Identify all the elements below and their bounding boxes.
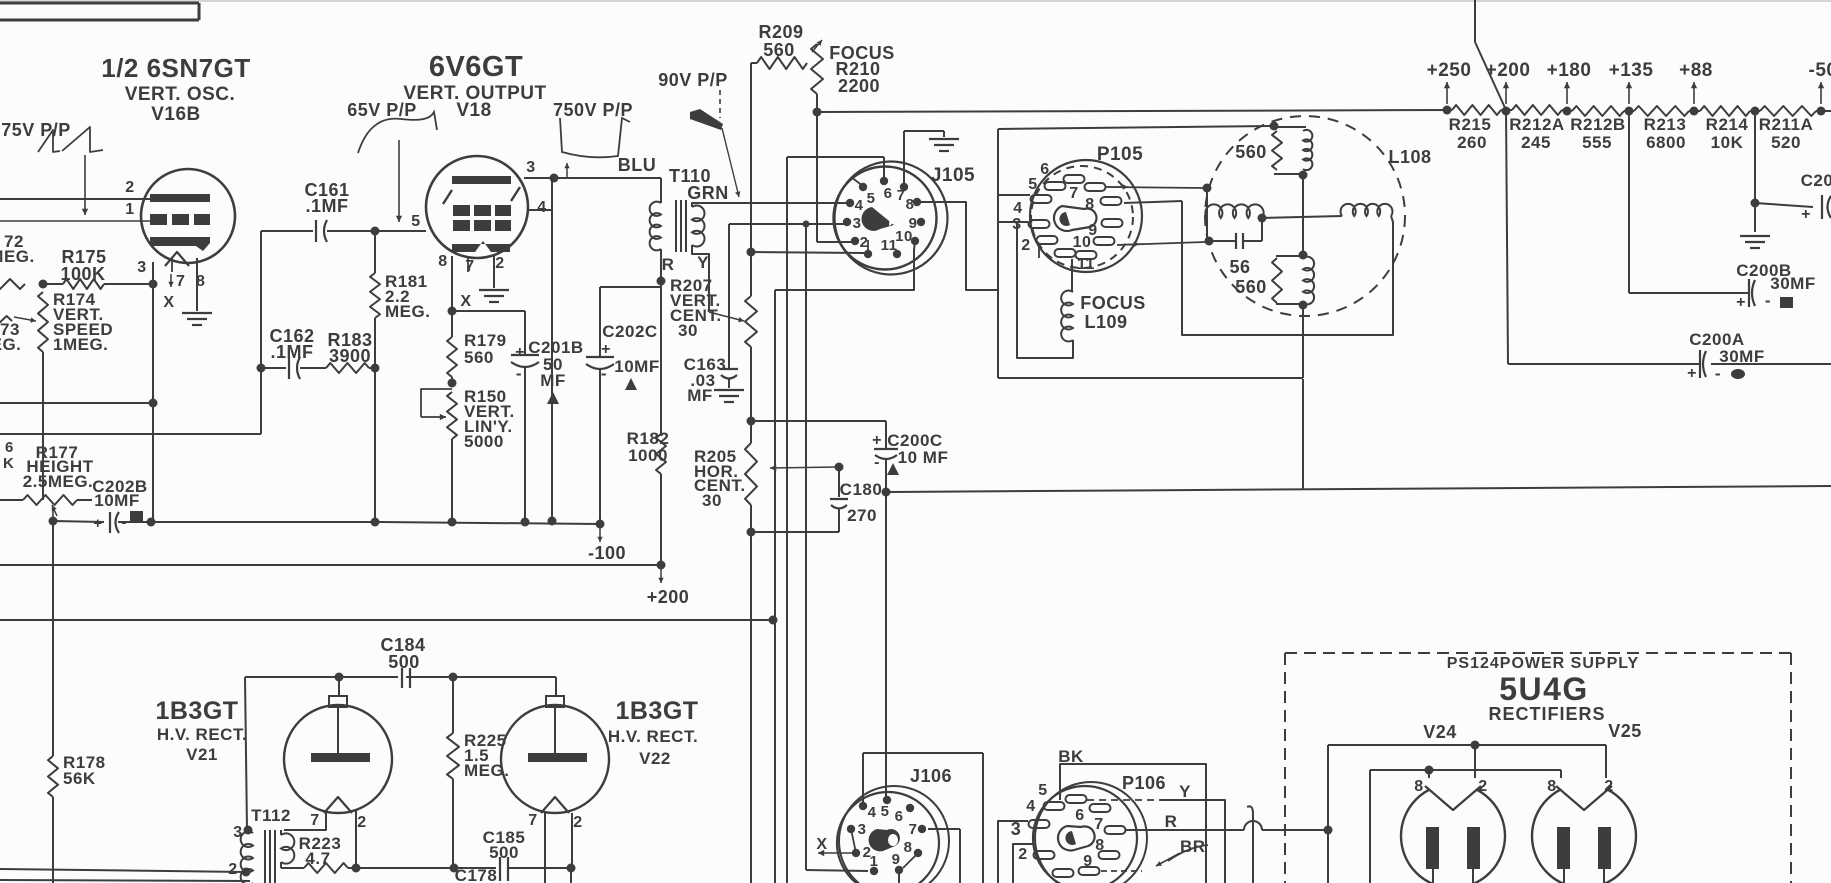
svg-text:6: 6 <box>1040 161 1049 178</box>
svg-text:-100: -100 <box>588 543 626 563</box>
svg-text:270: 270 <box>847 506 877 525</box>
svg-text:MF: MF <box>687 386 713 405</box>
svg-text:-50: -50 <box>1809 60 1831 81</box>
svg-text:7: 7 <box>1094 816 1103 833</box>
svg-text:555: 555 <box>1582 133 1612 152</box>
svg-text:2: 2 <box>860 234 869 251</box>
svg-text:MEG.: MEG. <box>385 302 430 321</box>
svg-text:8: 8 <box>1414 778 1423 795</box>
svg-text:J105: J105 <box>931 165 975 186</box>
svg-text:-: - <box>601 364 607 383</box>
svg-text:4: 4 <box>1026 798 1035 815</box>
svg-text:V25: V25 <box>1608 721 1642 741</box>
svg-text:3: 3 <box>233 824 242 841</box>
svg-text:+135: +135 <box>1609 60 1654 81</box>
svg-text:Y: Y <box>1179 782 1191 801</box>
svg-text:Y: Y <box>697 253 709 272</box>
svg-text:6: 6 <box>895 808 904 825</box>
svg-text:10K: 10K <box>1711 133 1744 152</box>
svg-text:56K: 56K <box>63 769 96 788</box>
svg-text:7: 7 <box>176 273 185 290</box>
svg-text:V18: V18 <box>456 100 491 121</box>
svg-text:500: 500 <box>489 843 519 862</box>
svg-text:7: 7 <box>310 812 319 829</box>
svg-text:C202C: C202C <box>602 322 657 341</box>
svg-text:R215: R215 <box>1449 115 1492 134</box>
svg-text:+88: +88 <box>1679 60 1713 81</box>
svg-text:R213: R213 <box>1644 115 1687 134</box>
svg-text:P106: P106 <box>1122 773 1166 793</box>
svg-text:10MF: 10MF <box>94 491 139 510</box>
svg-text:L108: L108 <box>1388 147 1431 167</box>
svg-text:3: 3 <box>853 215 862 232</box>
svg-text:30MF: 30MF <box>1770 274 1815 293</box>
svg-text:560: 560 <box>464 348 494 367</box>
svg-text:8: 8 <box>1547 778 1556 795</box>
svg-text:BLU: BLU <box>618 155 657 175</box>
svg-text:+: + <box>601 341 611 358</box>
svg-text:30: 30 <box>702 491 722 510</box>
svg-text:5: 5 <box>867 190 876 207</box>
svg-text:8: 8 <box>906 196 915 213</box>
svg-text:+200: +200 <box>647 587 690 607</box>
svg-text:+200: +200 <box>1486 60 1531 81</box>
svg-text:11: 11 <box>1077 256 1095 273</box>
svg-text:2: 2 <box>357 814 366 831</box>
svg-text:2: 2 <box>1604 778 1613 795</box>
svg-text:2: 2 <box>228 861 237 878</box>
svg-text:H.V. RECT.: H.V. RECT. <box>157 725 247 744</box>
svg-text:560: 560 <box>763 40 795 60</box>
svg-text:1/2 6SN7GT: 1/2 6SN7GT <box>101 53 251 83</box>
svg-text:75V P/P: 75V P/P <box>1 120 71 140</box>
svg-text:260: 260 <box>1457 133 1487 152</box>
svg-text:1: 1 <box>870 853 879 870</box>
svg-text:56: 56 <box>1229 257 1250 277</box>
svg-text:FOCUS: FOCUS <box>1080 293 1146 313</box>
svg-text:2: 2 <box>1478 778 1487 795</box>
svg-text:4: 4 <box>537 199 546 216</box>
svg-text:MF: MF <box>540 371 566 390</box>
svg-text:V21: V21 <box>186 745 218 764</box>
svg-text:7: 7 <box>897 187 906 204</box>
svg-text:V22: V22 <box>639 749 671 768</box>
svg-text:2.5MEG.: 2.5MEG. <box>23 472 94 491</box>
svg-text:R: R <box>662 255 675 274</box>
svg-text:T112: T112 <box>251 806 291 825</box>
svg-text:J106: J106 <box>910 766 952 786</box>
svg-text:4: 4 <box>1013 200 1022 217</box>
svg-text:65V P/P: 65V P/P <box>347 100 417 120</box>
svg-text:1000: 1000 <box>628 446 668 465</box>
svg-text:10: 10 <box>1073 234 1092 251</box>
svg-text:8: 8 <box>438 253 447 270</box>
svg-text:6: 6 <box>1075 807 1084 824</box>
svg-text:7: 7 <box>465 258 474 275</box>
svg-text:560: 560 <box>1235 142 1267 162</box>
svg-text:5: 5 <box>1038 782 1047 799</box>
svg-text:-: - <box>874 454 880 471</box>
svg-text:6800: 6800 <box>1646 133 1686 152</box>
svg-text:7: 7 <box>1069 185 1078 202</box>
svg-text:2: 2 <box>1021 237 1030 254</box>
svg-text:X: X <box>163 294 174 311</box>
svg-text:4: 4 <box>868 804 877 821</box>
svg-text:1: 1 <box>125 201 134 218</box>
svg-text:3: 3 <box>137 259 146 276</box>
svg-text:L109: L109 <box>1084 312 1127 332</box>
svg-text:560: 560 <box>1235 277 1267 297</box>
svg-text:RECTIFIERS: RECTIFIERS <box>1488 704 1605 724</box>
svg-text:-: - <box>1715 364 1721 383</box>
svg-text:10MF: 10MF <box>614 357 659 376</box>
svg-text:+: + <box>1687 365 1697 382</box>
svg-text:+: + <box>1801 206 1811 223</box>
svg-text:GRN: GRN <box>687 183 729 203</box>
svg-text:C20: C20 <box>1801 171 1831 190</box>
svg-text:10: 10 <box>895 228 913 245</box>
svg-text:11: 11 <box>881 237 898 254</box>
svg-text:-: - <box>1765 291 1771 310</box>
svg-text:2: 2 <box>1018 846 1027 863</box>
svg-text:90V P/P: 90V P/P <box>658 70 728 90</box>
svg-text:5: 5 <box>1028 176 1037 193</box>
svg-text:8: 8 <box>904 839 913 856</box>
svg-text:8: 8 <box>1095 837 1104 854</box>
svg-text:30: 30 <box>678 321 698 340</box>
svg-text:245: 245 <box>1521 133 1551 152</box>
svg-text:C180: C180 <box>840 480 883 499</box>
svg-text:R211A: R211A <box>1759 115 1813 134</box>
svg-text:.1MF: .1MF <box>305 196 348 216</box>
svg-text:9: 9 <box>1083 853 1092 870</box>
svg-text:5U4G: 5U4G <box>1499 671 1589 707</box>
svg-text:7: 7 <box>528 812 537 829</box>
svg-text:10 MF: 10 MF <box>898 448 949 467</box>
svg-text:R212A: R212A <box>1509 115 1564 134</box>
svg-text:1MEG.: 1MEG. <box>53 335 108 354</box>
svg-text:2: 2 <box>125 179 134 196</box>
svg-text:1B3GT: 1B3GT <box>615 697 698 725</box>
svg-text:3: 3 <box>526 159 535 176</box>
svg-text:1B3GT: 1B3GT <box>155 697 238 725</box>
svg-text:R209: R209 <box>758 22 803 42</box>
svg-text:EG.: EG. <box>0 335 21 354</box>
svg-text:+: + <box>515 344 525 361</box>
svg-text:V24: V24 <box>1423 722 1457 742</box>
svg-text:R214: R214 <box>1706 115 1749 134</box>
svg-text:4: 4 <box>855 197 864 214</box>
svg-text:K: K <box>3 455 14 472</box>
svg-text:MEG.: MEG. <box>0 247 35 266</box>
svg-text:R212B: R212B <box>1570 115 1625 134</box>
svg-text:2: 2 <box>495 255 504 272</box>
svg-text:R: R <box>1165 812 1178 831</box>
svg-text:5: 5 <box>411 213 420 230</box>
svg-text:H.V. RECT.: H.V. RECT. <box>608 727 698 746</box>
svg-text:3: 3 <box>858 821 867 838</box>
svg-text:VERT. OSC.: VERT. OSC. <box>125 84 236 105</box>
svg-text:8: 8 <box>1085 196 1094 213</box>
svg-text:+: + <box>872 432 882 449</box>
svg-text:V16B: V16B <box>151 104 201 125</box>
svg-text:+250: +250 <box>1427 60 1472 81</box>
svg-text:BR: BR <box>1180 837 1206 856</box>
svg-text:2: 2 <box>573 814 582 831</box>
svg-text:C178: C178 <box>455 866 498 883</box>
svg-text:+: + <box>1736 294 1746 311</box>
svg-text:-: - <box>516 364 522 383</box>
svg-text:+: + <box>93 515 102 532</box>
svg-text:750V P/P: 750V P/P <box>553 100 633 120</box>
svg-text:+180: +180 <box>1547 60 1592 81</box>
svg-text:5: 5 <box>881 803 890 820</box>
svg-text:2200: 2200 <box>838 76 880 96</box>
svg-text:PS124POWER SUPPLY: PS124POWER SUPPLY <box>1447 655 1639 672</box>
svg-text:6: 6 <box>5 439 14 456</box>
svg-text:100K: 100K <box>60 264 105 284</box>
svg-text:520: 520 <box>1771 133 1801 152</box>
svg-text:X: X <box>460 293 471 310</box>
svg-text:.1MF: .1MF <box>270 342 313 362</box>
svg-text:7: 7 <box>909 821 918 838</box>
svg-text:9: 9 <box>892 851 901 868</box>
svg-text:6: 6 <box>884 185 893 202</box>
svg-text:4.7: 4.7 <box>305 849 330 868</box>
svg-text:3900: 3900 <box>329 346 371 366</box>
svg-text:6V6GT: 6V6GT <box>429 51 523 83</box>
svg-text:X: X <box>816 836 827 853</box>
svg-text:500: 500 <box>388 652 420 672</box>
svg-text:5000: 5000 <box>464 432 504 451</box>
